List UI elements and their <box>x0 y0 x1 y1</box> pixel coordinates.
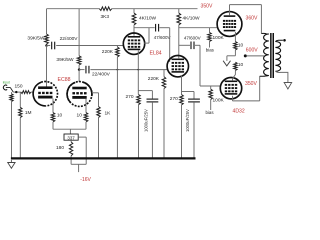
wire join bar to 337 regulator <box>69 129 71 134</box>
wire 10-L to join bar <box>52 122 54 129</box>
svg-text:270: 270 <box>170 96 178 102</box>
wire anode down to primary top <box>260 5 262 34</box>
svg-text:1M: 1M <box>25 110 32 116</box>
svg-text:39K/5W: 39K/5W <box>27 35 45 41</box>
wire -16V join bar <box>71 163 86 165</box>
wire EL84 #2 cathode down <box>181 75 183 94</box>
wire 4K #1 to EL84 #1 anode <box>133 25 135 36</box>
svg-text:47/600V: 47/600V <box>154 35 171 40</box>
svg-text:337: 337 <box>67 136 75 141</box>
capacitor 22/400V #1 <box>51 42 53 50</box>
ground secondary <box>284 83 292 90</box>
wire screen tap into tube <box>144 42 149 44</box>
wire input node to 1M <box>19 92 21 107</box>
capacitor 22/400V #2 <box>85 66 87 74</box>
wire EC88-R cathode down <box>85 99 87 113</box>
wire jack pin <box>6 87 11 89</box>
wire grid line to 100K #2 <box>210 86 212 89</box>
wire 337 to 180 <box>70 140 72 142</box>
pentode EL84 #2 <box>167 55 188 76</box>
capacitor 1000uF/25V #1 <box>147 98 159 100</box>
wire jack tail <box>10 88 13 93</box>
wire down to cap plates <box>151 91 153 99</box>
resistor 220K #2 <box>162 77 166 89</box>
wire EC88-R grid out <box>92 92 99 94</box>
svg-text:39K/5W: 39K/5W <box>56 57 74 63</box>
wire rail to 39K/5W #1 <box>46 9 48 34</box>
svg-text:100K: 100K <box>213 35 225 41</box>
wire to 4D32 bottom grid <box>200 85 221 87</box>
wire top rail right segment <box>112 8 198 10</box>
svg-text:1K: 1K <box>105 111 112 117</box>
wire cap #1 to ground rail <box>151 102 153 159</box>
svg-text:4K/10W: 4K/10W <box>139 16 157 22</box>
junction grid-line / 220K #1 ground leg <box>117 69 119 71</box>
svg-text:22/400V: 22/400V <box>60 36 79 42</box>
wire anode node to cap 47/600V #2 <box>179 44 190 46</box>
arrow output node (to speaker common) <box>223 61 230 66</box>
wire 220K #2 to ground rail <box>163 89 165 159</box>
svg-text:1000uF/25V: 1000uF/25V <box>185 109 190 132</box>
secondary bottom lead <box>275 71 288 82</box>
resistor 220K #1 <box>116 47 120 57</box>
wire EL84 #2 plate node to 4D32 top grid <box>179 27 218 29</box>
wire cap #2 to EL84 #2 grid <box>90 69 167 71</box>
svg-text:bias: bias <box>206 110 215 115</box>
transformer core <box>270 33 272 78</box>
wire 4D32 top anode up <box>229 5 231 16</box>
svg-text:4K/10W: 4K/10W <box>183 16 201 22</box>
svg-text:22/400V: 22/400V <box>92 71 111 77</box>
resistor 150 <box>21 91 31 94</box>
wire rail to 4K/10W #1 <box>133 9 135 13</box>
wire cathode right to primary bottom <box>233 100 260 102</box>
wire 10 lower to 4D32 bottom anode <box>233 71 236 81</box>
wire 1M to ground rail <box>19 118 21 159</box>
resistor 3K3 (series in rail) <box>99 7 112 11</box>
wire grid line to 220K #2 <box>163 70 165 77</box>
svg-text:input: input <box>3 80 10 84</box>
resistor 10 (EC88-R cathode) <box>84 113 88 122</box>
wire cathode join bar <box>53 128 86 130</box>
wire anode across top <box>230 4 262 6</box>
resistor 4K/10W #1 <box>132 13 136 25</box>
node A1 junction (EC88-L anode) <box>45 44 48 47</box>
resistor input shunt (pot) <box>10 94 13 102</box>
ground rail <box>11 157 196 159</box>
svg-text:bias: bias <box>206 48 215 53</box>
wire 180 through rail to -16V bar <box>70 156 72 165</box>
resistor 1K <box>97 107 100 118</box>
svg-text:180: 180 <box>56 145 64 151</box>
wire rail to ground symbol <box>10 160 12 163</box>
wire 150 to EC88-L grid <box>31 91 33 93</box>
terminal 600V supply <box>244 54 247 57</box>
wire stub down to arrow <box>226 56 228 61</box>
wire EL84 #1 anode to screen tap <box>148 28 150 43</box>
resistor 39K/5W #2 <box>77 56 81 65</box>
wire cathode to 270 #1 <box>137 70 139 95</box>
resistor 10 (output node upper) <box>234 42 237 50</box>
svg-text:-16V: -16V <box>80 177 91 183</box>
regulator 337 current source box <box>64 134 78 140</box>
resistor 10 (output node lower) <box>234 62 237 70</box>
svg-text:350V: 350V <box>245 81 257 87</box>
wire 220K #1 to grid-2 line <box>116 57 118 70</box>
wire EC88-L cathode down <box>52 99 54 113</box>
wire shunt resistor to ground rail <box>11 102 13 159</box>
svg-text:EC88: EC88 <box>58 77 71 83</box>
resistor 1M <box>19 107 22 117</box>
resistor 270 #2 <box>180 95 184 105</box>
primary bottom lead <box>260 75 269 78</box>
wire cap #2 out <box>195 44 200 46</box>
wire node A1 down to EC88-L anode <box>46 46 48 87</box>
wire cathode to bypass cap #2 <box>182 91 195 93</box>
wire stub to -16V <box>78 164 80 172</box>
wire 600V to primary tap <box>247 55 264 57</box>
svg-text:350V: 350V <box>201 3 213 9</box>
wire cathode to bypass cap #1 <box>138 90 152 92</box>
wire cap #1 to EL84 #1 grid <box>56 45 123 47</box>
wire node A2 down to EC88-R anode <box>78 70 80 82</box>
wire top rail left segment <box>47 8 100 10</box>
svg-text:10: 10 <box>238 62 244 68</box>
svg-text:220K: 220K <box>102 49 114 55</box>
svg-text:220K: 220K <box>148 76 160 82</box>
svg-text:10: 10 <box>238 43 244 49</box>
wire 337 adj out right <box>78 136 86 138</box>
wire 4D32 bottom cathode down <box>232 96 234 101</box>
capacitor 1000uF/25V #2 <box>188 98 200 100</box>
wire cap #2 to ground rail <box>193 102 195 159</box>
primary winding <box>261 33 268 75</box>
resistor 100K #1 <box>208 32 212 41</box>
svg-text:4D32: 4D32 <box>233 108 245 114</box>
wire grid line to 100K #1 <box>209 28 211 33</box>
wire 100K #1 to bias <box>209 42 211 48</box>
svg-text:1000uF/25V: 1000uF/25V <box>143 109 148 132</box>
wire jack to 150 resistor <box>13 91 20 93</box>
svg-text:10: 10 <box>57 113 63 119</box>
wire node A2 to cap 22/400V #2 <box>79 69 84 71</box>
wire 1K to ground rail <box>98 118 100 159</box>
terminal speaker output <box>283 39 286 42</box>
svg-text:150: 150 <box>15 84 23 90</box>
node A2 junction (EC88-R anode) <box>78 68 81 71</box>
wire 337 adj down through rail <box>85 137 87 164</box>
resistor 39K/5W #1 <box>45 34 49 44</box>
svg-text:47/600V: 47/600V <box>184 36 201 41</box>
tetrode 4D32 lower section <box>220 78 241 99</box>
triode EC88-A (left half) <box>33 82 57 106</box>
wire 4K #2 to EL84 #2 anode <box>178 25 180 58</box>
wire down to 1K <box>98 93 100 107</box>
wire cap #1 out <box>160 27 170 29</box>
wire 4D32 top cathode down <box>234 32 236 42</box>
wire cap #1 down to EL84 #2 screen <box>169 28 171 62</box>
wire 270 #2 to ground rail <box>181 105 183 159</box>
svg-text:360V: 360V <box>246 16 258 22</box>
node input junction <box>15 91 17 93</box>
wire cap #2 down <box>199 45 201 86</box>
resistor 10 (EC88-L cathode) <box>51 113 55 122</box>
wire up to primary bottom lead <box>259 76 261 101</box>
wire 270 #1 to ground rail <box>138 105 140 159</box>
wire node A1 to cap 22/400V #1 <box>47 45 51 47</box>
svg-text:100K: 100K <box>213 98 225 104</box>
capacitor 47/600V #2 <box>190 42 192 50</box>
ground symbol left <box>8 163 15 169</box>
resistor 4K/10W #2 <box>177 13 181 25</box>
wire down to input shunt resistor <box>11 92 13 94</box>
resistor 100K #2 <box>209 89 213 99</box>
capacitor 47/600V #1 <box>155 24 157 32</box>
wire EL84 #1 cathode down <box>137 50 139 69</box>
wire rail to 4K/10W #2 <box>178 9 180 13</box>
tetrode 4D32 upper section <box>217 12 242 37</box>
triode EC88-B (right half) <box>67 82 92 107</box>
wire EL84 #1 anode to cap 47/600V #1 <box>134 27 155 29</box>
svg-text:270: 270 <box>125 94 133 100</box>
wire down to cap plates <box>193 92 195 99</box>
secondary winding <box>275 42 280 72</box>
wire output node stub left <box>227 55 236 57</box>
wire 100K #2 to bias <box>210 100 212 111</box>
svg-text:EL84: EL84 <box>150 50 162 56</box>
svg-text:600V: 600V <box>246 48 258 54</box>
wire rail to 39K/5W #2 <box>78 9 80 56</box>
resistor 180 <box>69 142 72 156</box>
input jack connector <box>3 85 7 90</box>
wire 10-R to join bar <box>85 122 87 129</box>
pentode EL84 #1 <box>123 33 144 54</box>
wire 39K to anode node A1 <box>46 44 48 46</box>
resistor 270 #1 <box>137 95 141 105</box>
secondary top lead <box>275 40 283 41</box>
wire grid node to 220K #1 <box>116 46 118 48</box>
junction grid-line / EL84 #1 cathode <box>137 69 139 71</box>
svg-text:10: 10 <box>77 113 83 119</box>
svg-text:3K3: 3K3 <box>101 14 110 20</box>
wire 39K #2 to node A2 <box>78 65 80 70</box>
wire 10 to output node <box>234 50 236 56</box>
wire junction down to ground rail <box>116 70 118 159</box>
